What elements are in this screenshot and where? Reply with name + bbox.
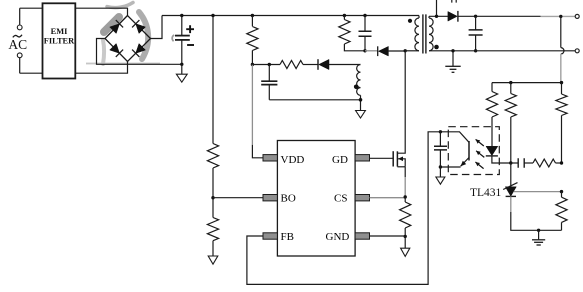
resistor divider lower xyxy=(556,192,567,231)
ground secondary (earth) xyxy=(445,51,460,73)
junction fb rail r2 xyxy=(509,81,512,84)
wire GD pin to gate xyxy=(370,157,394,159)
junction opto collector xyxy=(439,130,442,133)
junction output cap bottom xyxy=(474,49,477,52)
resistor fb bias xyxy=(505,83,516,163)
junction bulk cap top xyxy=(180,14,183,17)
bridge diode lower-right xyxy=(132,44,145,57)
transistor Q1 MOSFET xyxy=(393,51,405,167)
resistor opto LED series xyxy=(486,83,497,147)
stub cropped component above secondary xyxy=(437,0,457,16)
transformer core xyxy=(423,14,426,53)
junction bulk cap bottom xyxy=(180,63,183,66)
wire opto collector to FB pin xyxy=(247,132,441,285)
pin GND xyxy=(355,233,369,239)
junction fb rail sense xyxy=(560,81,563,84)
junction VDD cap xyxy=(268,63,271,66)
junction snubber bottom xyxy=(363,49,366,52)
EMI filter block xyxy=(43,3,76,78)
wire VDD node to aux rectifier xyxy=(252,64,280,66)
pin GD xyxy=(355,155,369,161)
bulk electrolytic capacitor xyxy=(172,16,194,65)
resistor divider upper xyxy=(556,83,567,163)
op-amp / controller IC U1 xyxy=(277,141,355,257)
junction aux return xyxy=(359,98,363,102)
ground aux winding xyxy=(356,111,366,119)
wire VDD cap to aux return xyxy=(269,99,360,101)
svg-text:GD: GD xyxy=(332,154,348,166)
capacitor snubber xyxy=(359,16,372,51)
wire bridge negative output to ground rail xyxy=(97,39,182,65)
pin FB xyxy=(263,233,277,239)
wire BO node to BO pin xyxy=(213,197,263,199)
junction VDD resistor top xyxy=(251,14,254,17)
junction secondary rail ground tap xyxy=(451,49,454,52)
junction primary bottom / drain node xyxy=(404,49,407,52)
resistor aux series xyxy=(280,61,318,69)
junction comp network left xyxy=(509,161,512,164)
junction BO node xyxy=(211,196,214,199)
junction secondary top stub xyxy=(435,15,438,18)
TL431 shunt regulator xyxy=(470,163,518,199)
resistor snubber xyxy=(339,16,365,51)
svg-text:TL431: TL431 xyxy=(470,187,502,199)
capacitor VDD xyxy=(261,65,277,100)
pin BO xyxy=(263,195,277,201)
wire TL431 anode rail xyxy=(511,196,562,230)
optocoupler phototransistor xyxy=(440,132,469,167)
junction divider mid node xyxy=(560,190,563,193)
resistor BO upper xyxy=(207,144,218,169)
svg-text:FILTER: FILTER xyxy=(44,36,75,45)
aux winding polarity dot xyxy=(354,85,359,90)
optocoupler light arrows xyxy=(475,139,484,168)
resistor compensation xyxy=(524,159,561,167)
wire BO divider mid xyxy=(212,168,214,218)
wire source to CS node xyxy=(404,167,406,197)
svg-text:BO: BO xyxy=(281,193,296,205)
secondary polarity dot xyxy=(434,45,439,50)
bridge rectifier diamond xyxy=(105,16,151,62)
transformer primary winding xyxy=(405,16,419,51)
junction CS node xyxy=(404,195,407,198)
wire feedback top rail xyxy=(492,82,562,84)
resistor current sense xyxy=(400,197,411,236)
wire CS pin to CS node (gray) xyxy=(370,197,406,199)
wire output positive rail xyxy=(476,15,576,17)
diode snubber clamp xyxy=(365,46,405,56)
ground opto emitter xyxy=(436,167,445,184)
gray scan artifact arc near bridge xyxy=(86,3,160,65)
aux winding xyxy=(357,65,361,111)
junction snubber cap top xyxy=(363,14,366,17)
wire EMI top output to bridge AC node xyxy=(75,8,127,15)
AC source terminals xyxy=(17,8,22,73)
wire DC bus to BO divider xyxy=(212,16,214,144)
wire EMI bottom output to bridge AC node (crosses negative rail) xyxy=(75,62,127,74)
junction output cap top xyxy=(474,15,477,18)
resistor BO lower xyxy=(207,218,218,241)
diode aux rectifier xyxy=(318,59,361,70)
svg-text:EMI: EMI xyxy=(51,27,68,36)
bridge diode lower-left xyxy=(110,44,123,57)
ground BO divider xyxy=(208,241,218,265)
wire TL431 ref to divider node (gray) xyxy=(514,191,562,193)
ground secondary reference (earth) xyxy=(532,230,545,245)
bridge diode upper-right xyxy=(132,20,145,33)
junction comp network right xyxy=(560,161,563,164)
DC bus top rail xyxy=(162,15,419,17)
terminal output positive xyxy=(575,14,579,18)
optocoupler LED xyxy=(486,146,511,163)
wire AC to EMI filter top xyxy=(20,7,43,9)
svg-text:CS: CS xyxy=(334,193,347,205)
primary polarity dot xyxy=(408,19,412,23)
wire AC to EMI filter bottom xyxy=(20,72,43,74)
bridge diode upper-left xyxy=(110,20,123,33)
AC label with tilde xyxy=(8,35,27,52)
transformer secondary winding xyxy=(429,16,433,51)
svg-text:AC: AC xyxy=(8,37,27,52)
junction snubber resistor top xyxy=(343,14,346,17)
diode output rectifier xyxy=(448,11,476,22)
junction output sense tap xyxy=(559,15,562,18)
svg-text:VDD: VDD xyxy=(281,154,305,166)
ground bulk cap xyxy=(176,64,187,82)
junction GND node xyxy=(404,235,407,238)
capacitor output xyxy=(469,16,483,51)
junction BO divider top xyxy=(211,14,214,17)
capacitor compensation xyxy=(511,158,524,167)
pin VDD xyxy=(263,155,277,161)
ground primary power xyxy=(401,236,410,256)
wire secondary return rail xyxy=(429,50,575,52)
terminal output negative xyxy=(575,49,579,53)
svg-text:GND: GND xyxy=(326,231,350,243)
wire GND pin to ground node xyxy=(370,235,406,237)
optocoupler dashed box xyxy=(448,127,499,175)
capacitor opto filter xyxy=(434,132,447,167)
wire bridge positive output riser to DC bus xyxy=(151,16,163,39)
junction secondary ground xyxy=(537,229,540,232)
wire sense line with hop over return rail xyxy=(561,16,564,82)
wire secondary top to output diode xyxy=(429,15,448,17)
svg-text:FB: FB xyxy=(281,231,294,243)
pin CS xyxy=(355,195,369,201)
wire VDD node to VDD pin (gray) xyxy=(252,65,263,158)
junction VDD node xyxy=(251,63,254,66)
resistor VDD startup xyxy=(247,16,258,65)
junction opto emitter xyxy=(439,165,442,168)
